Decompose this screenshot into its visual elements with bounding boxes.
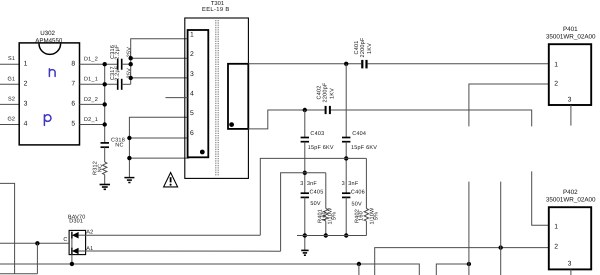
wire G2 input (0, 124, 19, 126)
junction dot rail stub (357, 262, 361, 266)
wire pin8 D1_2 (80, 63, 118, 65)
wire G1 input (0, 83, 19, 85)
svg-text:D1_1: D1_1 (84, 77, 98, 83)
connector P402 (546, 189, 596, 269)
junction dot R401 bottom (324, 233, 328, 237)
svg-text:2.2µF: 2.2µF (115, 44, 121, 60)
svg-text:15pF 6KV: 15pF 6KV (351, 145, 377, 151)
junction dots lower bus (127, 136, 131, 161)
svg-text:3: 3 (568, 97, 572, 104)
svg-text:3: 3 (24, 101, 28, 108)
wire C404 branch (345, 64, 347, 138)
svg-text:5%: 5% (332, 212, 338, 220)
capacitor C316 (110, 44, 132, 70)
transformer core (216, 20, 218, 177)
junction dot C405 bottom (303, 233, 307, 237)
wire mid riser (500, 182, 502, 275)
svg-text:1: 1 (190, 32, 194, 39)
wire to winding bottom (129, 157, 189, 159)
wire C404 to C406 node (345, 142, 347, 193)
resistor R401 (318, 173, 338, 236)
wire left riser (0, 183, 15, 273)
svg-text:5: 5 (190, 110, 194, 117)
capacitor C401 (354, 37, 373, 68)
svg-text:2: 2 (554, 81, 558, 88)
wire to T301 pin2 (131, 57, 187, 59)
svg-text:3: 3 (342, 181, 345, 187)
wire rail stub down (358, 264, 360, 275)
wire node A1 rail (281, 173, 326, 251)
svg-text:C406: C406 (351, 190, 365, 196)
capacitor C318 NC (101, 138, 125, 149)
svg-text:1: 1 (554, 61, 558, 68)
transformer T301 (185, 0, 249, 178)
resistor R402 (354, 158, 379, 235)
svg-text:EEL-19 B: EEL-19 B (202, 6, 230, 13)
svg-text:2: 2 (190, 51, 194, 58)
capacitor C406 (342, 181, 365, 208)
wire D301 A1 (86, 250, 281, 252)
wire pin7 D1_1 (80, 83, 118, 85)
wire P401 pin3 stub (570, 105, 572, 126)
ground (secondary) (301, 250, 308, 255)
svg-text:NC: NC (97, 164, 103, 172)
wire pin6 D2_2 (80, 103, 105, 105)
svg-text:S2: S2 (8, 96, 15, 102)
junction dot C405 node (303, 171, 307, 175)
junction dot pin2 net (499, 245, 503, 249)
warning triangle (164, 173, 178, 187)
svg-text:D301: D301 (69, 219, 83, 225)
T301 pin4 stub (166, 97, 188, 99)
diode D301 BAV70 (63, 214, 93, 264)
svg-text:U302: U302 (40, 30, 55, 37)
T301 secondary winding (228, 64, 248, 129)
svg-text:2: 2 (24, 81, 28, 88)
svg-text:C405: C405 (310, 190, 324, 196)
wire D301 cathode input (0, 242, 69, 244)
svg-text:1: 1 (24, 60, 28, 67)
svg-text:50V: 50V (310, 201, 321, 207)
svg-text:D2_1: D2_1 (84, 117, 98, 123)
wire pin5 D2_1 (80, 124, 105, 126)
svg-text:8: 8 (71, 60, 75, 67)
svg-text:6: 6 (71, 101, 75, 108)
svg-text:25V: 25V (126, 47, 132, 58)
junction dot C406 bottom (344, 233, 348, 237)
junction dot cathode stub (35, 241, 39, 245)
svg-text:5%: 5% (374, 212, 380, 220)
svg-text:3: 3 (300, 181, 303, 187)
svg-text:P401: P401 (563, 26, 578, 33)
wire R312 to ground (104, 175, 106, 184)
wire S2 input (0, 103, 19, 105)
wire C402 right to P402 pin1 riser (331, 110, 532, 126)
wire P402 pin1 riser (532, 171, 549, 225)
wire primary node bus (131, 39, 187, 85)
svg-text:3nF: 3nF (348, 181, 359, 187)
svg-text:7: 7 (71, 81, 75, 88)
IC U302 APM4550 (19, 30, 79, 145)
wire S1 input (0, 63, 19, 65)
svg-text:G2: G2 (7, 117, 15, 123)
junction dots node bus (129, 56, 133, 80)
junction dot tap node (303, 108, 307, 112)
wire C403 to C405 node (304, 142, 306, 193)
polarity dot secondary (229, 122, 234, 127)
capacitor C404 (342, 131, 377, 151)
svg-text:P402: P402 (563, 189, 578, 196)
svg-text:1KV: 1KV (329, 88, 335, 99)
svg-text:35001WR_02A00: 35001WR_02A00 (546, 33, 596, 40)
svg-text:2.2µF: 2.2µF (115, 65, 121, 81)
svg-text:APM4550: APM4550 (35, 37, 63, 44)
wire P402 pin2 net (375, 248, 549, 275)
svg-text:D2_2: D2_2 (84, 97, 98, 103)
wire C401 right to P401 pin1 (368, 63, 549, 65)
svg-text:3: 3 (568, 261, 572, 268)
T301 primary winding (188, 30, 209, 157)
junction dots drain bus (103, 62, 107, 127)
wire C406 bottom (345, 197, 347, 235)
capacitor C403 (301, 131, 334, 151)
svg-text:G1: G1 (7, 76, 15, 82)
svg-text:50V: 50V (352, 202, 363, 208)
svg-text:4: 4 (24, 121, 28, 128)
wire rail segment right (436, 264, 469, 275)
wire P401 pin2 net (469, 84, 549, 126)
svg-text:5: 5 (71, 121, 75, 128)
wire secondary top (to C401/P401) (248, 63, 361, 65)
wire R402 top rail (346, 157, 366, 159)
ground (primary bus) (124, 178, 134, 183)
svg-text:35001WR_02A00: 35001WR_02A00 (546, 197, 596, 204)
wire cathode stub down (36, 243, 38, 273)
wire bottom left link (0, 273, 37, 275)
wire P401 pin2 net lower (468, 182, 470, 275)
junction dot rail right (467, 262, 471, 266)
svg-text:2: 2 (554, 244, 558, 251)
capacitor C405 (300, 181, 323, 207)
resistor R312 (93, 161, 107, 175)
svg-text:D1_2: D1_2 (84, 57, 98, 63)
svg-text:C404: C404 (352, 131, 366, 137)
svg-text:160: 160 (358, 211, 364, 221)
wire to T301 pin3 (131, 77, 187, 79)
polarity dot primary (200, 150, 205, 155)
svg-text:3: 3 (190, 71, 194, 78)
svg-text:6: 6 (190, 130, 194, 137)
capacitor C317 (110, 65, 132, 90)
connector P401 (546, 26, 596, 105)
capacitor C402 (317, 82, 336, 114)
wire C317 right (122, 83, 131, 85)
wire to T301 pin6 (129, 137, 187, 139)
svg-text:3nF: 3nF (307, 181, 318, 187)
wire P402 pin3 stub (570, 269, 572, 275)
svg-text:C: C (63, 237, 67, 243)
svg-text:2200pF: 2200pF (323, 82, 329, 102)
wire C405 bottom (304, 197, 306, 250)
wire bottom cap rail (297, 235, 366, 237)
svg-text:S1: S1 (8, 56, 15, 62)
svg-text:4: 4 (190, 91, 194, 98)
wire C316 right (122, 63, 131, 65)
junction dot D301 common (70, 262, 74, 266)
svg-text:1: 1 (554, 223, 558, 230)
wire D301 A2 (86, 234, 261, 236)
svg-text:NC: NC (115, 143, 123, 149)
wire ground rail (0, 264, 419, 275)
wire C403 branch (304, 110, 306, 137)
junction dot C406 node (344, 156, 348, 160)
ground (R312) (100, 185, 110, 190)
wire primary lower bus (129, 117, 187, 177)
svg-text:2200pF: 2200pF (360, 37, 366, 57)
junction dot C401 node (344, 62, 348, 66)
svg-text:C403: C403 (310, 131, 324, 137)
wire C318 to R312 (104, 147, 106, 162)
svg-text:1KV: 1KV (367, 43, 373, 54)
wire secondary tap (248, 110, 324, 129)
wire drain bus (104, 64, 106, 142)
svg-text:15pF 6KV: 15pF 6KV (308, 145, 334, 151)
wire node A2 rail (260, 158, 346, 235)
